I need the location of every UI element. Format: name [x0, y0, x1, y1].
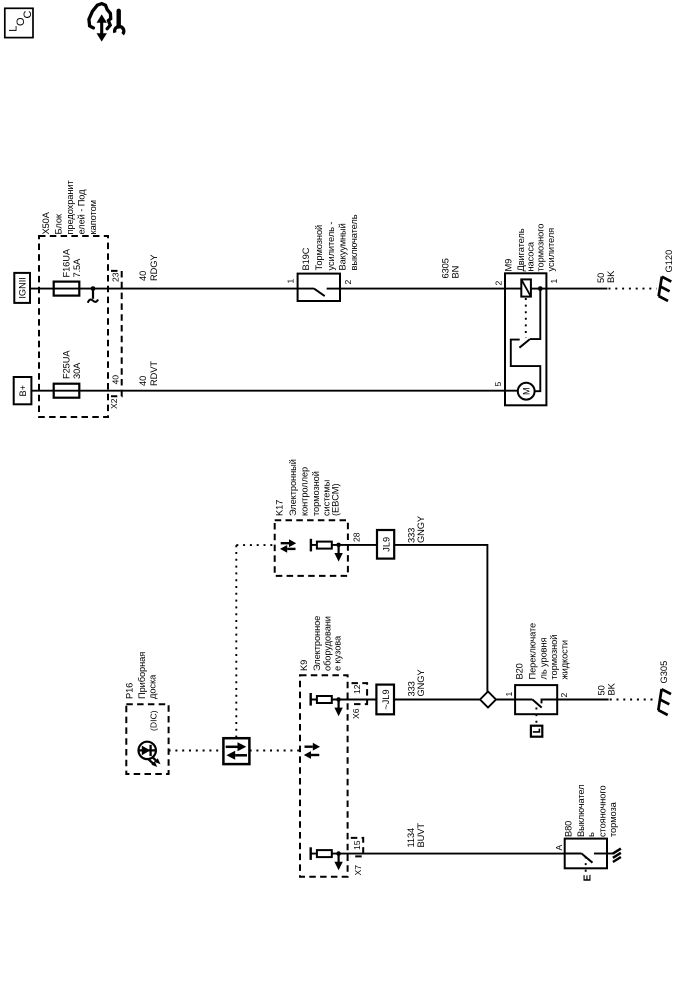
svg-text:E: E	[582, 874, 594, 881]
svg-text:тормозной: тормозной	[311, 471, 321, 516]
brake booster vacuum switch B19C	[286, 214, 360, 301]
svg-text:тормозной: тормозной	[549, 635, 559, 680]
wire IGNII feed to B19C	[30, 288, 298, 290]
svg-text:28: 28	[352, 532, 362, 542]
fuse block X50A dashed box	[39, 236, 108, 417]
svg-text:40: 40	[138, 376, 148, 386]
wire label 40 RDGY	[138, 255, 159, 281]
LOC legend box	[5, 8, 34, 37]
P16 warning indicator LED	[139, 742, 161, 767]
K9 park brake sensing element	[311, 847, 565, 870]
svg-text:GNGY: GNGY	[416, 516, 426, 543]
svg-text:P16: P16	[125, 683, 135, 699]
svg-text:12: 12	[352, 684, 362, 694]
connector X6 dashed bracket	[352, 683, 368, 704]
svg-text:елей - Под: елей - Под	[77, 189, 87, 235]
svg-text:F16UA: F16UA	[62, 248, 72, 277]
ground G305	[658, 661, 671, 715]
svg-text:333: 333	[407, 681, 417, 696]
svg-text:G305: G305	[659, 661, 669, 684]
svg-text:2: 2	[559, 693, 569, 698]
svg-text:B20: B20	[515, 663, 525, 679]
M9 junction node	[538, 286, 543, 291]
svg-text:BK: BK	[606, 270, 616, 283]
serial data bus riser to K17	[235, 545, 237, 738]
svg-text:X2: X2	[109, 398, 119, 409]
svg-text:BN: BN	[451, 266, 461, 279]
svg-text:тормоза: тормоза	[608, 801, 618, 837]
instrument cluster P16 dashed box	[126, 704, 168, 774]
svg-text:Двигатель: Двигатель	[516, 228, 526, 271]
wire label 333 GNGY upper	[407, 516, 427, 543]
svg-text:RDGY: RDGY	[149, 255, 159, 281]
svg-text:X6: X6	[351, 708, 361, 719]
svg-text:оборудовани: оборудовани	[323, 616, 333, 671]
svg-text:GNGY: GNGY	[416, 670, 426, 697]
B80 pedal actuator link	[585, 857, 587, 875]
svg-text:40: 40	[138, 271, 148, 281]
EBCM module K17 dashed box	[275, 520, 348, 576]
K17 serial data arrows	[280, 539, 296, 553]
svg-text:е кузова: е кузова	[333, 635, 343, 671]
connector X7 dashed bracket	[351, 838, 363, 857]
svg-text:1134: 1134	[406, 828, 416, 848]
svg-text:23: 23	[111, 272, 121, 282]
wire 6305 BN B19C to M9	[340, 288, 505, 290]
svg-text:1: 1	[549, 279, 559, 284]
wire label 40 RDVT	[138, 361, 159, 386]
svg-text:стояночного: стояночного	[598, 785, 608, 837]
svg-text:Вакуумный: Вакуумный	[338, 223, 348, 270]
svg-text:жидкости: жидкости	[560, 640, 570, 679]
svg-text:Блок: Блок	[54, 213, 64, 234]
M9 relay fixed contact and motor branch	[511, 340, 541, 392]
svg-text:Электронный: Электронный	[288, 459, 298, 516]
svg-text:B+: B+	[18, 385, 28, 397]
label P16 instrument panel	[125, 652, 158, 699]
svg-text:F25UA: F25UA	[62, 350, 72, 379]
power feed IGNII box	[14, 273, 30, 303]
wire diamond to B20	[496, 699, 515, 701]
label K9 body electronics	[299, 616, 343, 671]
fuse F25UA 30A	[54, 350, 82, 398]
svg-text:Тормозной: Тормозной	[314, 225, 324, 271]
svg-text:доска: доска	[148, 674, 158, 699]
svg-text:капотом: капотом	[88, 200, 98, 234]
M9 relay contact branch	[530, 289, 540, 340]
svg-text:40: 40	[111, 375, 121, 385]
svg-text:7.5A: 7.5A	[72, 258, 82, 278]
svg-text:ь: ь	[586, 832, 596, 837]
svg-text:M: M	[522, 387, 532, 395]
svg-text:Выключател: Выключател	[576, 785, 586, 838]
svg-text:усилитель -: усилитель -	[326, 222, 336, 271]
K9 fluid level sensing element	[311, 693, 480, 716]
svg-text:насоса: насоса	[526, 241, 536, 271]
svg-text:50: 50	[597, 685, 607, 695]
wire label 50 BK	[596, 270, 616, 283]
wire label 50 BK lower	[597, 682, 617, 695]
in-line harness box -JL9	[376, 685, 394, 715]
svg-text:контроллер: контроллер	[300, 467, 310, 516]
wire label 6305 BN	[441, 258, 461, 278]
brake fluid level switch B20	[504, 623, 570, 737]
svg-text:15: 15	[352, 840, 362, 850]
svg-text:выключатель: выключатель	[349, 214, 359, 270]
svg-text:JL9: JL9	[381, 537, 391, 552]
fuse F16UA 7.5A	[54, 248, 82, 295]
svg-text:2: 2	[343, 280, 353, 285]
svg-text:K17: K17	[275, 500, 285, 516]
B80 chassis ground hatch	[613, 849, 621, 862]
M9 pump motor	[518, 383, 535, 400]
M9 relay switch blade	[519, 339, 530, 348]
svg-text:50: 50	[596, 273, 606, 283]
svg-text:2: 2	[494, 281, 504, 286]
svg-text:Переключате: Переключате	[528, 623, 538, 680]
svg-text:BUVT: BUVT	[416, 823, 426, 848]
svg-text:Приборная: Приборная	[137, 652, 147, 699]
svg-text:6305: 6305	[441, 258, 451, 278]
svg-text:C: C	[22, 11, 34, 19]
body control module K9 dashed box	[300, 675, 348, 876]
power feed B+ box	[14, 377, 32, 404]
header car/service icon	[89, 4, 124, 42]
label X50A	[41, 180, 98, 235]
B80 case ground stub	[607, 853, 614, 855]
svg-text:M9: M9	[504, 259, 514, 272]
svg-text:B19C: B19C	[301, 247, 311, 270]
svg-text:30A: 30A	[72, 362, 82, 379]
splice diamond	[480, 692, 496, 708]
svg-text:X7: X7	[353, 865, 363, 876]
park brake switch B80	[554, 785, 621, 882]
ground G120	[659, 250, 674, 301]
svg-text:1: 1	[504, 692, 514, 697]
K17 internal sensing element	[311, 539, 488, 692]
wire 50 BK B20 to G305	[557, 699, 608, 701]
in-line connector X2 dashed bracket	[111, 271, 122, 396]
svg-text:усилителя: усилителя	[546, 228, 556, 272]
svg-text:Электронное: Электронное	[312, 616, 322, 671]
serial data bus to K17	[236, 544, 273, 546]
svg-text:предохранит: предохранит	[65, 180, 75, 235]
in-line harness box JL9	[377, 530, 394, 559]
splice pigtail on IGNII wire	[88, 286, 98, 303]
B20 float actuator link	[535, 708, 537, 725]
label K17 EBCM	[275, 459, 341, 516]
svg-text:RDVT: RDVT	[149, 361, 159, 386]
svg-text:K9: K9	[299, 660, 309, 671]
svg-text:B80: B80	[564, 821, 574, 837]
wire label 333 GNGY lower	[407, 670, 427, 697]
M9 relay mechanical link	[525, 298, 527, 338]
wire label 1134 BUVT	[406, 823, 426, 848]
svg-text:(DIC): (DIC)	[149, 710, 159, 731]
serial data bus P16 to junction	[169, 750, 224, 752]
svg-text:BK: BK	[607, 682, 617, 695]
svg-text:(EBCM): (EBCM)	[331, 484, 341, 516]
wire 50 BK M9 to G120	[546, 288, 607, 290]
K9 serial data arrows	[304, 743, 320, 759]
wire B+ feed to M9 motor	[31, 390, 517, 392]
B20 float symbol	[531, 726, 542, 737]
serial data bus junction to K9	[250, 750, 302, 752]
svg-text:G120: G120	[664, 250, 674, 273]
M9 relay coil	[505, 288, 521, 290]
svg-text:IGNII: IGNII	[18, 277, 28, 298]
svg-text:5: 5	[493, 382, 503, 387]
svg-text:1: 1	[286, 279, 296, 284]
svg-text:333: 333	[407, 528, 417, 543]
svg-text:тормозного: тормозного	[536, 224, 546, 272]
svg-text:X50A: X50A	[41, 211, 51, 234]
svg-text:ль уровня: ль уровня	[539, 637, 549, 679]
serial data junction box	[223, 738, 249, 764]
svg-text:~JL9: ~JL9	[381, 689, 391, 709]
brake booster pump motor M9	[493, 224, 559, 406]
svg-text:A: A	[554, 845, 564, 851]
